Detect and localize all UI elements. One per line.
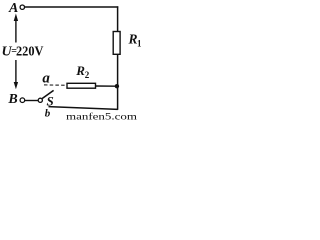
resistor R2: [67, 83, 96, 88]
wire right vertical upper: [117, 6, 119, 32]
terminal B circle: [20, 98, 25, 103]
switch S blade: [42, 90, 53, 98]
svg-text:R: R: [128, 32, 138, 47]
svg-text:1: 1: [137, 39, 141, 49]
wire right vertical lower: [117, 54, 119, 110]
svg-text:a: a: [42, 70, 50, 86]
background: [0, 0, 141, 121]
svg-text:R: R: [75, 63, 85, 78]
svg-text:B: B: [7, 92, 17, 107]
wire R2 to junction: [95, 85, 117, 87]
switch pivot circle: [38, 98, 42, 102]
contact b line (bottom wire): [49, 107, 118, 110]
contact a dashed lead: [44, 84, 67, 86]
voltage arrow down: [15, 60, 17, 84]
terminal A circle: [20, 5, 24, 9]
resistor R1: [113, 32, 120, 55]
wire switch pole: [25, 100, 38, 102]
junction node: [115, 84, 119, 88]
voltage arrow up: [15, 19, 17, 43]
svg-text:2: 2: [85, 70, 90, 80]
wire top horizontal: [25, 6, 119, 8]
svg-text:220V: 220V: [16, 44, 44, 59]
svg-text:b: b: [45, 108, 51, 120]
svg-text:manfen5.com: manfen5.com: [66, 112, 137, 122]
svg-text:A: A: [8, 1, 18, 16]
